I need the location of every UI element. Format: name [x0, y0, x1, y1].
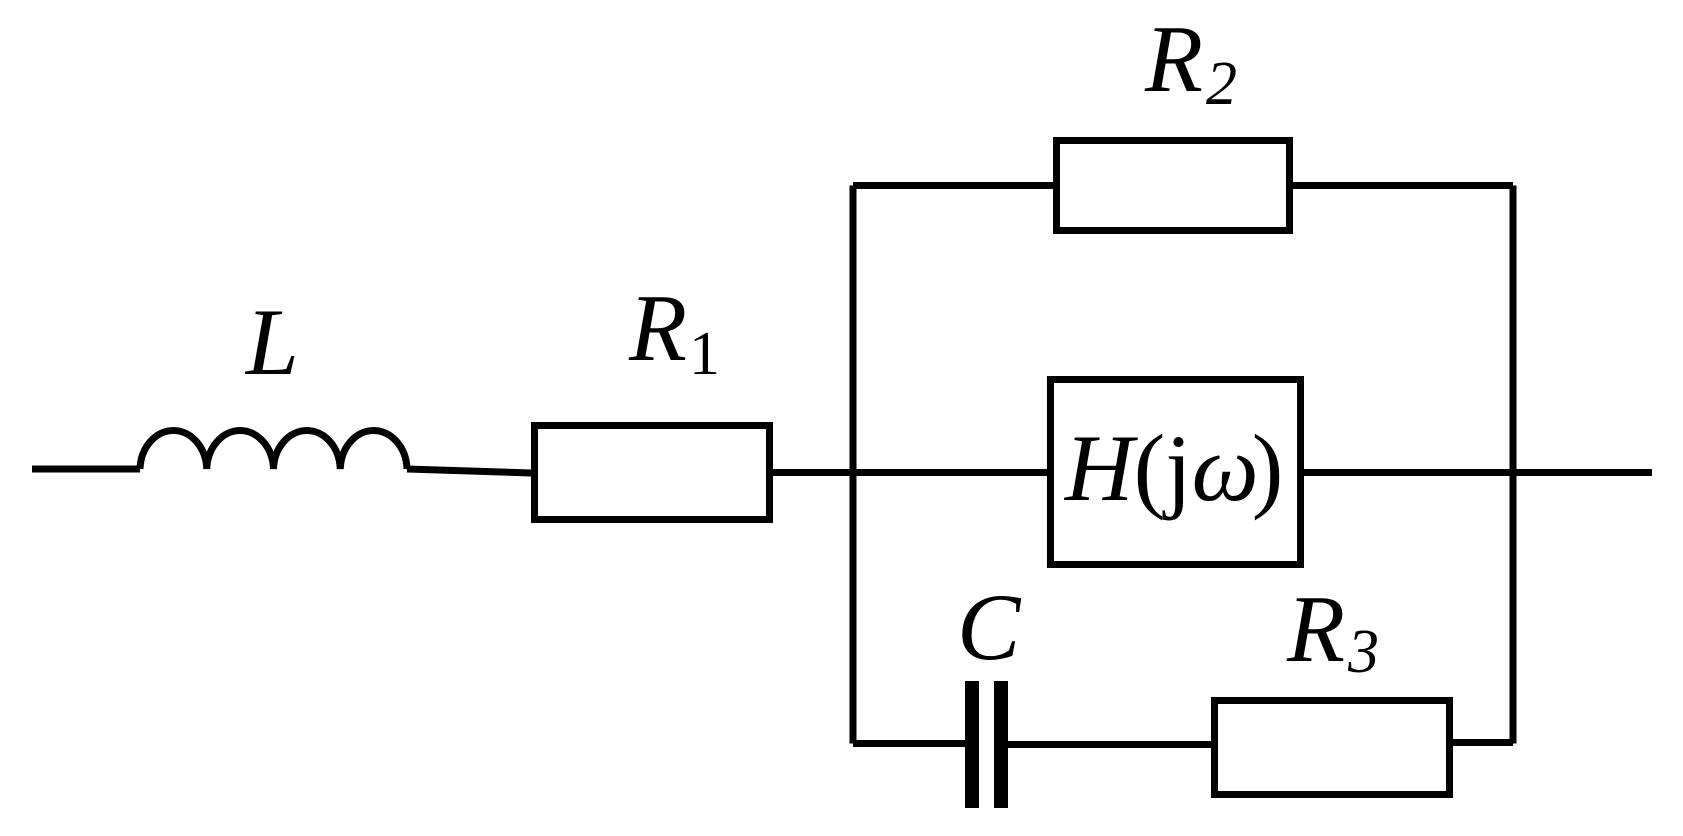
- svg-text:R: R: [1286, 576, 1345, 682]
- svg-text:1: 1: [689, 320, 720, 388]
- svg-text:L: L: [244, 289, 299, 395]
- svg-text:2: 2: [1206, 50, 1237, 118]
- svg-text:C: C: [957, 574, 1022, 680]
- svg-text:R: R: [1144, 6, 1203, 112]
- svg-text:H(jω): H(jω): [1063, 415, 1283, 521]
- svg-text:R: R: [628, 275, 687, 381]
- svg-text:3: 3: [1347, 618, 1379, 686]
